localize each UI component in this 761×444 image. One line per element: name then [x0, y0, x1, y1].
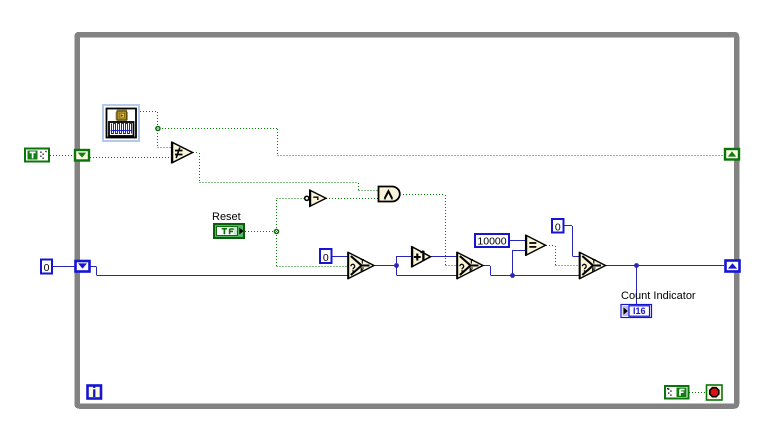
wire: junction to right shift register (boolean dotted)	[159, 129, 724, 156]
while loop border	[77, 35, 737, 407]
select node 1	[348, 252, 374, 279]
wire: +1 output to select2 t input	[431, 256, 457, 258]
wire: 0 constant to select3 t input	[564, 226, 580, 257]
keyboard acquire-input VI icon	[103, 105, 139, 141]
wire: not-gate output to and-gate bottom input (dotted)	[326, 198, 378, 200]
wire: not-equal output to and-gate top input (dotted)	[193, 153, 378, 191]
left shift register terminal (boolean, down arrow)	[75, 150, 89, 161]
svg-text:Reset: Reset	[212, 211, 241, 223]
right shift register terminal (boolean, up arrow)	[725, 149, 739, 160]
chip glyph on VI icon	[116, 110, 129, 122]
junction node on keyboard boolean wire	[155, 126, 161, 132]
svg-text:I16: I16	[633, 306, 646, 316]
wire: select3 output to right shift register and count indicator	[605, 266, 724, 305]
wire: keyboard VI output to not-equal top input (boolean dotted)	[140, 112, 172, 148]
junction node on Reset wire	[274, 229, 280, 235]
junction dot select2 output	[510, 273, 515, 278]
equal comparison node	[526, 235, 546, 257]
wire: TRUE constant to left boolean shift register (dotted)	[50, 155, 74, 157]
wire: FALSE constant to loop condition terminal (dotted)	[689, 392, 706, 394]
wire: numeric 0 constant to left numeric shift register	[52, 266, 75, 268]
and gate	[379, 187, 400, 202]
wire: equal output to select3 s input (dotted)	[546, 246, 580, 266]
wire: left boolean shift register to not-equal bottom input (dotted)	[90, 157, 172, 159]
wire: select2 output to junction, select3 f input, equal bottom input	[483, 250, 580, 276]
left shift register terminal (numeric, down arrow)	[76, 261, 90, 272]
wire: left numeric shift register to select1 f input	[90, 267, 348, 276]
wire: 10000 constant to equal top input	[510, 240, 526, 242]
svg-text:0: 0	[555, 221, 561, 233]
svg-text:0: 0	[323, 252, 329, 264]
wire: select1 output to junction then +1 and select2 f input	[374, 256, 457, 276]
I16 indicator terminal	[621, 305, 652, 318]
increment +1 node	[412, 246, 431, 268]
numeric constant 0 (select3 t input)	[552, 219, 564, 233]
select node 3	[579, 252, 605, 279]
boolean constant TRUE (outside loop)	[25, 149, 49, 162]
select node 2	[457, 252, 483, 279]
wire: and-gate output to select2 s input (dotted)	[403, 195, 457, 266]
wire: 0 constant to select1 t input	[332, 256, 348, 258]
not gate (with input bubble)	[305, 189, 326, 207]
junction dot select1 output	[394, 263, 399, 268]
wire: Reset control to junction, up to not-gate, down to select1 s input (dotted)	[245, 198, 348, 267]
right shift register terminal (numeric, up arrow)	[726, 261, 740, 272]
loop iteration terminal i	[88, 386, 102, 399]
boolean constant FALSE	[665, 386, 689, 399]
svg-text:10000: 10000	[477, 236, 506, 248]
numeric constant 10000	[475, 234, 509, 248]
numeric constant 0 (left of loop)	[41, 260, 52, 275]
svg-text:0: 0	[44, 262, 50, 274]
not-equal comparison node	[172, 142, 193, 164]
svg-text:Count Indicator: Count Indicator	[621, 290, 696, 302]
numeric constant 0 (select1 t input)	[320, 249, 332, 264]
loop condition terminal (stop sign)	[707, 385, 723, 400]
junction dot select3 output	[634, 263, 639, 268]
piano keyboard glyph on VI icon	[109, 122, 134, 136]
Reset boolean control terminal	[214, 224, 244, 238]
